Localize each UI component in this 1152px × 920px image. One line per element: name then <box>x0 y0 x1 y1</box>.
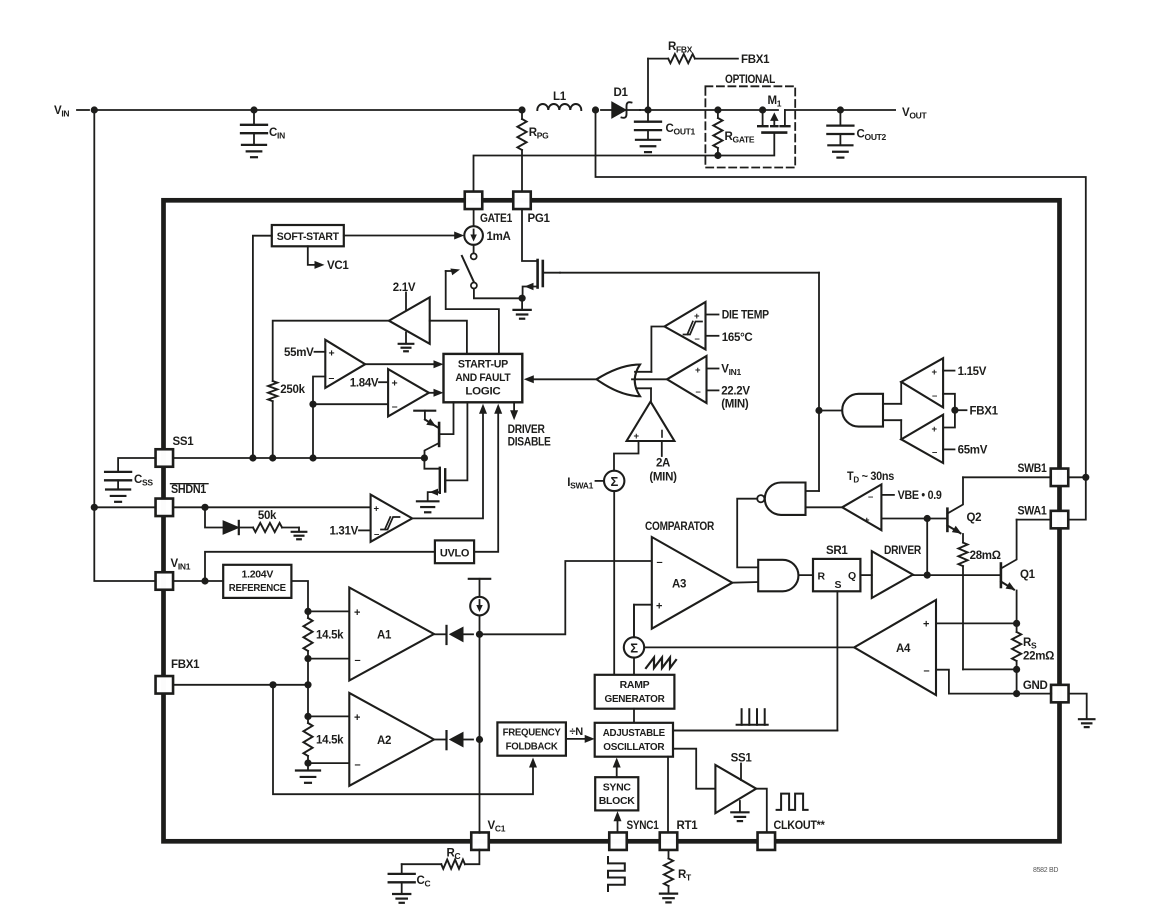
junction TD-driver node <box>924 515 931 522</box>
wire comp bottom tip <box>900 420 902 439</box>
svg-text:DRIVER: DRIVER <box>508 424 546 436</box>
ground divider <box>307 763 309 770</box>
ground CIN <box>242 144 266 146</box>
svg-text:–: – <box>392 401 398 413</box>
junction RPG tap <box>518 106 525 113</box>
wire buffer to CLKOUT pin <box>756 789 767 833</box>
svg-text:+: + <box>695 365 701 376</box>
svg-text:55mV: 55mV <box>284 347 314 359</box>
wire S input <box>673 591 837 730</box>
wire 1mA to switch <box>473 245 475 254</box>
wire switch to gnd node <box>474 289 522 299</box>
svg-text:+: + <box>932 424 938 435</box>
wire AND-FBX in top <box>883 403 901 405</box>
resistor RPG <box>521 110 523 119</box>
svg-text:GENERATOR: GENERATOR <box>605 693 666 705</box>
wire OR bottom input <box>636 387 651 389</box>
svg-text:+: + <box>694 311 700 322</box>
svg-text:50k: 50k <box>258 510 277 522</box>
wire ramp to osc <box>633 709 635 723</box>
junction SS1 discharge node <box>421 454 428 461</box>
resistor RGATE <box>717 110 719 118</box>
wire UVLO out <box>474 410 498 552</box>
svg-text:–: – <box>696 387 701 398</box>
svg-text:SYNC: SYNC <box>603 782 632 794</box>
junction VC A1 <box>476 631 483 638</box>
svg-text:+: + <box>932 367 938 378</box>
wire VC rail down <box>479 634 481 833</box>
wire comp top tip <box>900 382 902 404</box>
pin FBX1 <box>156 676 174 694</box>
wire A2 plus <box>308 715 349 717</box>
svg-text:22.2V: 22.2V <box>721 386 750 398</box>
svg-text:8582 BD: 8582 BD <box>1033 867 1058 874</box>
svg-text:S: S <box>835 579 842 591</box>
svg-text:14.5k: 14.5k <box>316 630 344 642</box>
svg-text:BLOCK: BLOCK <box>599 795 636 807</box>
svg-text:SWA1: SWA1 <box>1018 506 1048 518</box>
svg-text:+: + <box>656 601 662 613</box>
wire osc to RT1 <box>667 757 669 833</box>
wire GND node to pin <box>1017 693 1052 695</box>
junction CIN tap <box>250 106 257 113</box>
wire SS1 rail <box>173 457 424 459</box>
transistor NMOS (SS discharge) <box>424 458 438 469</box>
junction FBX1 comp <box>951 407 958 414</box>
wire M1 to VOUT <box>785 109 895 111</box>
wire driver column <box>926 519 928 576</box>
pin GATE1 <box>465 192 483 210</box>
wire FBX bracket <box>943 394 955 428</box>
wire Q1 collector to SWA1 <box>1017 519 1051 521</box>
buffer CLKOUT <box>715 765 756 813</box>
optional dashed box <box>705 86 795 167</box>
wire 2.1V input <box>430 321 467 354</box>
pin PG1 <box>513 192 531 210</box>
resistor RFBX <box>648 58 668 60</box>
svg-text:+: + <box>354 607 360 619</box>
svg-text:22mΩ: 22mΩ <box>1023 651 1054 663</box>
wire SYNC1 to sync block <box>617 818 619 833</box>
junction SWB1 outer <box>1082 474 1089 481</box>
wire VC to A3 minus <box>480 561 652 634</box>
clock waveform icon <box>777 794 808 810</box>
svg-text:VC1: VC1 <box>327 260 349 272</box>
wire 28m to RS bottom <box>963 668 1017 670</box>
wire A1 plus <box>308 610 349 612</box>
wire schmitt out <box>412 410 483 519</box>
amp 1.84V <box>388 369 429 416</box>
op-amp A4 <box>854 600 936 695</box>
junction 1.84V tap <box>309 401 316 408</box>
wire 165C stub <box>706 335 719 337</box>
wire 2.1V output to 250k <box>273 321 389 381</box>
resistor RS 22mohm <box>1016 623 1018 632</box>
junction VIN1 node <box>201 577 208 584</box>
svg-text:ADJUSTABLE: ADJUSTABLE <box>603 727 665 739</box>
comparator 2A (min current) <box>627 402 675 441</box>
wire 1.84V out <box>429 392 435 394</box>
capacitor CIN <box>253 110 255 125</box>
driver amp <box>872 551 913 598</box>
svg-text:165°C: 165°C <box>722 332 753 344</box>
wire NAND out to AND <box>737 499 758 568</box>
pin SWA1 <box>1051 511 1069 528</box>
ground CSS <box>106 488 130 490</box>
junction FBX branch <box>269 681 276 688</box>
junction SHDN1 divider <box>201 504 208 511</box>
junction GND node <box>1013 690 1020 697</box>
wire SOFT-START left to SS1 rail <box>253 236 272 458</box>
capacitor CC <box>401 864 403 874</box>
wire DRIVER DISABLE <box>513 402 515 413</box>
switch blade <box>462 256 474 282</box>
ground CLK buffer <box>739 801 741 812</box>
svg-text:(MIN): (MIN) <box>649 472 677 484</box>
junction M1 drain <box>759 106 766 113</box>
wire VIN down to VIN1 <box>94 110 155 581</box>
block ADJUSTABLE OSCILLATOR <box>595 723 673 757</box>
pin CLKOUT <box>758 832 776 850</box>
svg-text:+: + <box>374 504 380 515</box>
block RAMP GENERATOR <box>595 675 675 709</box>
sync input waveform <box>608 857 625 891</box>
resistor 50k <box>239 527 253 529</box>
wire A4 out to sigma2 <box>644 646 854 648</box>
svg-text:1.204V: 1.204V <box>242 569 274 581</box>
svg-text:DISABLE: DISABLE <box>508 437 552 449</box>
junction FBX-AND node <box>815 407 822 414</box>
svg-text:+: + <box>329 347 335 359</box>
block START-UP AND FAULT LOGIC <box>444 354 523 402</box>
svg-text:–: – <box>329 372 335 384</box>
pin SHDN1 <box>156 499 174 517</box>
svg-text:Σ: Σ <box>630 640 638 655</box>
capacitor CSS <box>105 471 131 473</box>
wire die-temp out <box>651 327 664 372</box>
wire SOFT-START to 1mA source <box>344 235 457 237</box>
ground COUT1 <box>636 139 660 141</box>
wire VIN1 comp stub1 <box>707 368 719 370</box>
svg-text:Q1: Q1 <box>1020 569 1036 581</box>
block FREQUENCY FOLDBACK <box>497 722 566 755</box>
switch contact top <box>471 253 477 259</box>
svg-text:COMPARATOR: COMPARATOR <box>645 521 715 533</box>
svg-text:65mV: 65mV <box>958 445 988 457</box>
resistor 14.5k upper <box>307 611 309 618</box>
comparator FBX low (65mV) <box>901 415 943 463</box>
op-amp A1 <box>349 588 434 681</box>
comparator VIN1 undervoltage <box>667 356 707 403</box>
gate AND (FBX fault) <box>842 394 883 427</box>
delay amp TD <box>842 484 881 530</box>
wire SW node down-right to SWB1/SWA1 column <box>596 110 1086 477</box>
junction divider top <box>304 608 311 615</box>
svg-text:Q2: Q2 <box>967 512 982 524</box>
ground GND pin <box>1079 718 1094 720</box>
junction SW node <box>592 106 599 113</box>
svg-text:GND: GND <box>1023 680 1048 692</box>
wire 2A minus input <box>661 441 663 456</box>
wire VIN1 comp stub2 <box>707 389 719 391</box>
wire NAND top input <box>806 490 820 492</box>
svg-text:OSCILLATOR: OSCILLATOR <box>603 741 665 753</box>
pin VIN1 <box>156 572 174 590</box>
wire foldback to osc <box>566 738 588 740</box>
junction SS rail c <box>309 454 316 461</box>
diode A2 output <box>434 739 447 741</box>
block UVLO <box>435 540 474 563</box>
svg-text:R: R <box>818 571 826 583</box>
wire driver out <box>913 574 1001 576</box>
svg-text:2.1V: 2.1V <box>393 282 416 294</box>
wire FBX to foldback <box>273 685 533 794</box>
diode A1 output <box>434 633 447 635</box>
pin RT1 <box>660 832 678 850</box>
svg-text:SWB1: SWB1 <box>1018 463 1048 475</box>
wire A3 plus <box>634 605 652 639</box>
wire NMOS gate line <box>560 272 819 274</box>
svg-text:UVLO: UVLO <box>440 548 470 560</box>
wire FBX1 stub <box>955 409 967 411</box>
wire TD plus to Q2 base <box>881 518 947 520</box>
wire sigma1 to ramp <box>613 491 615 675</box>
junction SS rail a <box>249 454 256 461</box>
wire A2 minus <box>308 762 349 764</box>
ground 50k <box>298 528 300 532</box>
pin SS1 <box>156 449 174 467</box>
capacitor COUT2 <box>839 110 841 126</box>
wire AND-FBX in bottom <box>883 419 901 421</box>
resistor 14.5k lower <box>307 716 309 723</box>
wire A1 minus <box>308 658 349 660</box>
junction divider mid2 <box>304 713 311 720</box>
wire 2A plus input <box>614 441 639 470</box>
svg-text:SS1: SS1 <box>173 436 195 448</box>
svg-text:DIE TEMP: DIE TEMP <box>722 310 770 322</box>
wire 2A to OR <box>650 388 652 401</box>
wire Q to driver <box>860 574 871 576</box>
svg-text:Q: Q <box>848 570 856 582</box>
transistor Q2 <box>946 509 949 531</box>
wire 55mV minus <box>313 377 325 458</box>
wire Q2 collector to SWB1 <box>963 476 1051 478</box>
svg-text:–: – <box>657 557 663 569</box>
wire AND out to R <box>798 574 813 576</box>
inductor L1 <box>537 104 581 110</box>
svg-text:–: – <box>932 447 937 458</box>
svg-text:÷N: ÷N <box>570 726 584 738</box>
junction RGATE bottom <box>714 152 721 159</box>
svg-text:+: + <box>864 515 870 526</box>
wire SHDN1 down to diode <box>205 507 223 527</box>
wire switch control <box>446 271 499 354</box>
wire osc to clk buffer <box>673 749 715 789</box>
wire NAND bottom input <box>806 506 843 508</box>
svg-text:–: – <box>868 492 873 503</box>
svg-text:FBX1: FBX1 <box>970 406 999 418</box>
svg-text:GATE1: GATE1 <box>480 213 513 225</box>
svg-text:VBE • 0.9: VBE • 0.9 <box>898 490 942 502</box>
wire outer down to SWA1 <box>1068 477 1086 519</box>
wire SWB1 right <box>1068 476 1086 478</box>
junction VC A2 <box>476 736 483 743</box>
svg-text:1.15V: 1.15V <box>958 366 987 378</box>
pin SWB1 <box>1051 469 1069 487</box>
svg-text:+: + <box>354 712 360 724</box>
clock ticks icon <box>737 724 768 726</box>
wire to RFBX <box>647 59 649 110</box>
capacitor COUT1 <box>647 110 649 122</box>
wire AND-FBX out <box>819 410 842 412</box>
wire GND pin to ground <box>1069 694 1087 719</box>
svg-text:FBX1: FBX1 <box>171 659 200 671</box>
block 1.204V REFERENCE <box>223 565 291 598</box>
block SOFT-START <box>272 225 344 246</box>
ground NMOS SS <box>417 500 439 502</box>
svg-text:1mA: 1mA <box>487 231 511 243</box>
svg-text:–: – <box>932 391 937 402</box>
wire SHDN1 to comparator <box>173 506 371 508</box>
ground CC <box>393 893 410 895</box>
pin GND <box>1051 685 1069 703</box>
pin SYNC1 <box>609 832 627 850</box>
svg-text:RT1: RT1 <box>677 820 699 832</box>
junction COUT1 node <box>644 106 651 113</box>
wire COUT1 node <box>640 109 778 111</box>
resistor RC <box>441 860 465 869</box>
svg-text:–: – <box>695 334 700 345</box>
svg-text:CLKOUT**: CLKOUT** <box>774 820 826 832</box>
svg-text:FREQUENCY: FREQUENCY <box>503 727 561 739</box>
svg-text:D1: D1 <box>614 87 629 99</box>
junction RGATE top <box>714 106 721 113</box>
wire FBX1 pin rail <box>173 684 308 686</box>
diode 50k clamp <box>223 521 239 534</box>
svg-text:PG1: PG1 <box>528 213 551 225</box>
svg-text:A1: A1 <box>377 630 392 642</box>
svg-text:1.31V: 1.31V <box>329 526 358 538</box>
wire VBE stub <box>881 494 894 496</box>
svg-text:+: + <box>923 619 929 631</box>
wire OR mid input <box>632 378 667 380</box>
resistor 250k <box>268 381 277 401</box>
wire osc to S <box>673 730 837 732</box>
current source VC pull-up <box>469 578 490 580</box>
svg-text:LOGIC: LOGIC <box>465 386 500 398</box>
svg-text:AND FAULT: AND FAULT <box>455 372 511 384</box>
wire divider mid <box>307 659 309 717</box>
capacitor CSS wiring <box>118 458 155 472</box>
svg-text:A4: A4 <box>896 643 911 655</box>
transistor PNP (SS pull-up) <box>414 410 435 412</box>
junction COUT2 node <box>837 106 844 113</box>
wire current source to VC rail <box>479 615 481 634</box>
switch control arrow <box>446 270 452 272</box>
svg-text:–: – <box>374 529 379 540</box>
junction RS bottom <box>1013 666 1020 673</box>
resistor 28mohm <box>958 543 967 567</box>
wire A4 plus <box>936 622 1017 624</box>
junction RS top <box>1013 620 1020 627</box>
IC boundary <box>164 200 1060 841</box>
block SYNC BLOCK <box>595 777 638 810</box>
svg-text:L1: L1 <box>553 91 567 103</box>
ground 2.1V buffer <box>405 333 407 344</box>
svg-text:REFERENCE: REFERENCE <box>229 582 286 594</box>
wire sync to osc <box>616 764 618 778</box>
buffer 2.1V <box>389 297 430 344</box>
wire VIN1 to UVLO <box>205 552 435 581</box>
svg-text:DRIVER: DRIVER <box>884 545 922 557</box>
svg-text:14.5k: 14.5k <box>316 735 344 747</box>
junction NMOS source <box>519 295 526 302</box>
svg-text:SHDN1: SHDN1 <box>171 484 207 496</box>
op-amp A2 <box>349 693 434 786</box>
wire SHDN1 from VIN <box>94 506 155 508</box>
svg-text:+: + <box>392 378 398 390</box>
wire A3 out <box>732 581 758 584</box>
ground NMOS source <box>521 298 523 310</box>
comparator A3 <box>652 537 733 629</box>
ground COUT2 <box>828 144 852 146</box>
pin VC1 <box>471 832 489 850</box>
ramp waveform icon <box>646 658 676 669</box>
svg-text:28mΩ: 28mΩ <box>970 550 1001 562</box>
ground RT <box>660 892 677 894</box>
gate OR (fault) <box>597 365 641 397</box>
svg-text:Σ: Σ <box>610 474 618 489</box>
wire sigma2 down <box>633 658 635 675</box>
comparator 1.31V (schmitt) <box>371 495 413 542</box>
wire 1.15V stub <box>943 370 954 372</box>
svg-text:SR1: SR1 <box>826 545 848 557</box>
summer ISWA1 <box>604 471 624 491</box>
transistor M1 (PMOS) <box>762 110 764 125</box>
junction driver node <box>924 572 931 579</box>
wire VC1 ext <box>465 850 480 865</box>
wire GATE1 to M1 gate <box>474 133 775 192</box>
svg-text:2A: 2A <box>656 458 670 470</box>
gate AND (reset) <box>758 560 798 592</box>
junction SHDN1 on VIN line <box>91 504 98 511</box>
transistor Q1 <box>1000 564 1003 588</box>
svg-text:1.84V: 1.84V <box>350 378 379 390</box>
junction divider mid1 <box>304 655 311 662</box>
junction FBX node <box>304 681 311 688</box>
amp 55mV <box>325 340 365 388</box>
svg-text:(MIN): (MIN) <box>721 399 749 411</box>
wire OR to START-UP <box>530 378 597 380</box>
latch SR1 <box>813 559 860 591</box>
wire reference out <box>291 581 308 611</box>
wire A4 minus <box>936 670 1017 694</box>
svg-text:RAMP: RAMP <box>620 679 650 691</box>
wire DIE TEMP stub <box>706 314 719 316</box>
junction SS rail b <box>269 454 276 461</box>
junction divider bottom <box>304 760 311 767</box>
svg-text:250k: 250k <box>280 384 305 396</box>
svg-text:–: – <box>355 759 361 771</box>
wire VIN rail <box>94 109 522 111</box>
transistor internal NMOS <box>522 209 538 261</box>
svg-text:FOLDBACK: FOLDBACK <box>506 741 559 753</box>
comparator DIE TEMP <box>665 302 706 349</box>
wire AND-FBX output down <box>818 273 820 491</box>
wire sigma2 up to A3 <box>633 605 635 638</box>
switch contact bottom <box>471 283 477 289</box>
wire 1.84V minus <box>313 403 388 405</box>
